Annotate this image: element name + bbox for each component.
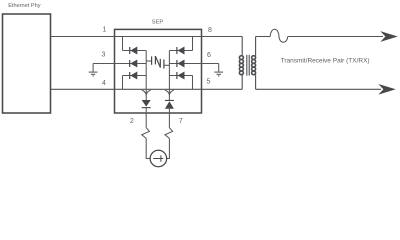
svg-text:6: 6 xyxy=(207,52,211,59)
svg-text:SEP: SEP xyxy=(152,19,164,25)
svg-text:2: 2 xyxy=(130,118,134,125)
svg-text:Ethernet Phy: Ethernet Phy xyxy=(8,3,41,9)
svg-text:Transmit/Receive Pair (TX/RX): Transmit/Receive Pair (TX/RX) xyxy=(281,57,370,64)
svg-text:7: 7 xyxy=(179,118,183,125)
svg-text:3: 3 xyxy=(102,51,106,58)
svg-text:4: 4 xyxy=(102,80,106,87)
svg-text:1: 1 xyxy=(103,26,107,33)
svg-text:5: 5 xyxy=(207,79,211,86)
svg-text:8: 8 xyxy=(208,27,212,34)
